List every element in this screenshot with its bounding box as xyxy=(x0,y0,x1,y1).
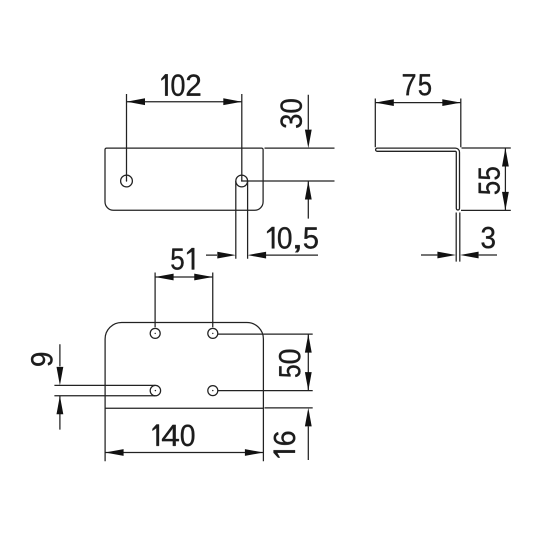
hole right (Ø10.5) front view xyxy=(236,175,248,187)
top view slot end circle xyxy=(150,385,160,395)
dimension 30: value text (rotated) xyxy=(280,99,302,128)
dimension 51: extension lines xyxy=(155,273,213,328)
dimension 16: value text (rotated) xyxy=(274,432,296,458)
dimension 16: extension line xyxy=(265,407,313,409)
dimension 140: value text xyxy=(153,424,195,446)
side view L-profile (75x55x3) xyxy=(377,150,458,209)
dimension 55: dimension line with arrows xyxy=(502,148,509,210)
dimension 55: value text (rotated) xyxy=(479,167,500,194)
dimension 30: extension lines xyxy=(242,148,335,181)
dimension 10,5: dimension line with outside arrows xyxy=(206,252,318,259)
dimension 30: dimension line with outside arrows xyxy=(305,95,312,219)
dimension 140: extension lines xyxy=(105,408,263,461)
dimension 50: dimension line with arrows xyxy=(305,334,312,391)
dimension 75: value text xyxy=(403,74,431,95)
dimension 102: dimension line with arrows xyxy=(127,98,242,105)
dimension 50: value text (rotated) xyxy=(279,350,301,377)
dimension 10,5: value text xyxy=(267,227,318,252)
dimension 75: dimension line with arrows xyxy=(375,99,461,106)
dimension 102: value text xyxy=(161,74,200,96)
top view outline (140x75 flange) xyxy=(105,323,263,409)
dimension 140: dimension line with arrows xyxy=(105,449,263,456)
hole left (Ø10.5) front view xyxy=(121,175,133,187)
top view hole lower-right (Ø9) xyxy=(208,386,218,396)
dimension 10,5: extension lines (hole tangents) xyxy=(236,181,248,259)
dimension 75: extension lines xyxy=(375,99,461,148)
dimension 9: dimension line with outside arrows xyxy=(57,344,64,429)
dimension 55: extension lines xyxy=(461,148,511,210)
dimension 102: extension lines xyxy=(127,94,242,181)
dimension 51: dimension line with arrows xyxy=(155,274,213,281)
dimension 3: extension lines xyxy=(456,213,460,262)
top view hole upper-left (Ø9) xyxy=(150,328,160,338)
dimension 16: dimension line with outside arrow xyxy=(305,408,312,460)
top view slot side lines (also 9-dim extension lines) xyxy=(54,385,155,395)
dimension 3: dimension line with outside arrows xyxy=(421,252,497,259)
front view outline (140x55 plate) xyxy=(105,148,263,210)
dimension 50: extension lines xyxy=(218,334,313,391)
dimension 51: value text xyxy=(171,248,194,270)
dimension 3: value text xyxy=(482,227,495,249)
top view hole upper-right (Ø9) xyxy=(208,328,218,338)
dimension 9: value text (rotated) xyxy=(31,353,53,366)
